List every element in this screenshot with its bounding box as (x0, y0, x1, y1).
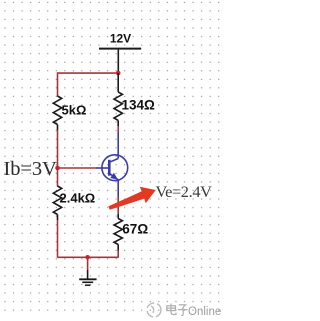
svg-text:134Ω: 134Ω (122, 97, 156, 112)
wire collector (117, 126, 119, 133)
transistor Q1 emitter arrowhead (110, 173, 118, 180)
junction ground node (85, 255, 90, 260)
resistor R2 134Ω lead upper (117, 73, 119, 92)
svg-text:Ve=2.4V: Ve=2.4V (156, 182, 213, 201)
transistor Q1 circle (102, 155, 128, 181)
resistor R4 67Ω zigzag (114, 219, 122, 245)
watermark logo ring (147, 303, 161, 317)
resistor R2 134Ω zigzag (114, 92, 122, 120)
ground bar 1 (79, 278, 96, 280)
resistor R3 2.4kΩ zigzag (53, 186, 61, 215)
svg-text:67Ω: 67Ω (122, 221, 148, 236)
wire base (58, 167, 97, 169)
transistor Q1 base lead (96, 167, 109, 169)
wire emitter to R4 (117, 197, 119, 214)
resistor R4 67Ω lead upper (117, 214, 119, 219)
transistor Q1 emitter diagonal (110, 173, 119, 180)
wire right branch lower (117, 251, 119, 258)
dotted grid background (0, 0, 224, 313)
ground bar 3 (85, 284, 90, 286)
ground bar 2 (82, 281, 93, 283)
resistor R2 lead lower (117, 120, 119, 126)
transistor Q1 collector lead (117, 133, 119, 159)
svg-text:2.4kΩ: 2.4kΩ (60, 190, 96, 205)
watermark char 电 (167, 304, 176, 315)
resistor R1 5kΩ zigzag (53, 96, 61, 125)
transistor Q1 emitter lead (117, 180, 119, 197)
transistor Q1 base bar (108, 160, 111, 176)
power source 12V rail bar (99, 48, 141, 50)
svg-text:12V: 12V (110, 31, 131, 45)
wire ground stem (87, 257, 89, 270)
resistor R3 lead lower (57, 215, 59, 221)
svg-text:Online: Online (188, 306, 221, 318)
wire bottom rail (58, 256, 119, 258)
wire left branch upper (57, 72, 59, 96)
resistor R1 lead lower (57, 125, 59, 131)
junction base node (55, 166, 60, 171)
power source lead (117, 50, 119, 74)
svg-text:5kΩ: 5kΩ (62, 102, 87, 117)
transistor Q1 collector diagonal (110, 159, 119, 163)
ground lead (87, 270, 89, 279)
resistor R4 lead lower (117, 245, 119, 251)
watermark char 子 (178, 305, 188, 316)
wire left branch middle (57, 130, 59, 187)
svg-text:Ib=3V: Ib=3V (4, 158, 57, 180)
wire left branch lower (57, 220, 59, 258)
wire top rail (58, 72, 119, 74)
annotation arrow red (108, 187, 156, 210)
junction top (116, 71, 121, 76)
